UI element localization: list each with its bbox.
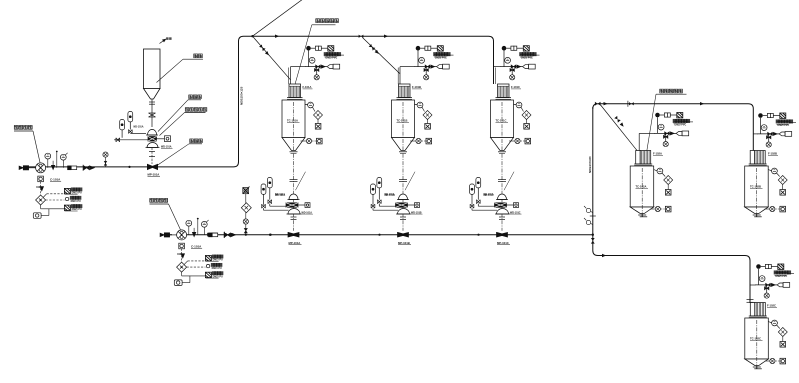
svg-text:MP-101A: MP-101A xyxy=(148,173,160,177)
svg-text:WD-101C: WD-101C xyxy=(510,211,521,214)
svg-text:F-102A: F-102A xyxy=(653,152,662,156)
svg-text:F-102C: F-102C xyxy=(767,304,776,308)
svg-text:MD-101C: MD-101C xyxy=(484,194,495,197)
svg-text:MD-101A: MD-101A xyxy=(275,194,286,197)
svg-text:TC-102A: TC-102A xyxy=(636,185,647,189)
svg-text:WD-101A: WD-101A xyxy=(302,211,313,214)
svg-text:TC-102B: TC-102B xyxy=(750,185,761,189)
svg-text:NDB150×125: NDB150×125 xyxy=(240,86,244,105)
svg-text:MP-101B: MP-101B xyxy=(398,241,410,245)
svg-text:WD-101A: WD-101A xyxy=(161,146,172,149)
svg-text:WD-101B: WD-101B xyxy=(411,211,422,214)
svg-text:ND-101A: ND-101A xyxy=(134,126,144,129)
svg-text:F-101C: F-101C xyxy=(511,85,520,89)
svg-text:MP-101A: MP-101A xyxy=(289,241,301,245)
svg-text:NDB100×80: NDB100×80 xyxy=(588,156,592,173)
svg-text:F-101B: F-101B xyxy=(412,85,421,89)
svg-text:TC-101C: TC-101C xyxy=(496,119,507,123)
svg-text:TC-101A: TC-101A xyxy=(287,119,298,123)
svg-text:MD-101B: MD-101B xyxy=(385,194,396,197)
svg-text:F-101A: F-101A xyxy=(303,85,312,89)
svg-text:TC-101B: TC-101B xyxy=(397,119,408,123)
svg-text:F-102B: F-102B xyxy=(768,152,777,156)
svg-text:TC-102C: TC-102C xyxy=(750,337,761,341)
svg-text:MP-101C: MP-101C xyxy=(497,241,509,245)
